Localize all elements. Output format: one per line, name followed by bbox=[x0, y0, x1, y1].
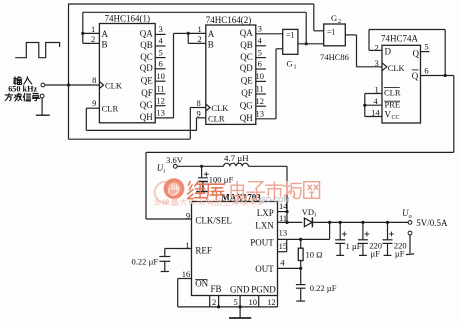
svg-text:16: 16 bbox=[182, 269, 191, 279]
svg-text:10 Ω: 10 Ω bbox=[306, 250, 323, 260]
svg-text:4: 4 bbox=[258, 36, 263, 46]
svg-text:8: 8 bbox=[92, 75, 96, 85]
svg-text:5: 5 bbox=[158, 47, 162, 57]
svg-text:3.6V: 3.6V bbox=[166, 155, 184, 165]
svg-text:=1: =1 bbox=[327, 28, 336, 37]
svg-text:QG: QG bbox=[240, 100, 253, 110]
svg-text:Q: Q bbox=[412, 71, 419, 81]
svg-text:13: 13 bbox=[156, 108, 165, 118]
svg-text:15: 15 bbox=[279, 241, 288, 251]
svg-text:µF: µF bbox=[370, 248, 380, 258]
svg-text:CLK: CLK bbox=[211, 103, 229, 113]
svg-text:8: 8 bbox=[197, 98, 201, 108]
svg-text:QC: QC bbox=[140, 52, 153, 62]
svg-text:11: 11 bbox=[157, 84, 165, 94]
svg-text:0.22 µF: 0.22 µF bbox=[132, 257, 159, 267]
svg-text:QH: QH bbox=[240, 113, 253, 123]
svg-text:QB: QB bbox=[140, 40, 153, 50]
svg-text:GND: GND bbox=[230, 285, 250, 295]
svg-text:4: 4 bbox=[158, 36, 163, 46]
svg-text:6: 6 bbox=[258, 59, 262, 69]
svg-text:13: 13 bbox=[255, 109, 264, 119]
svg-text:4: 4 bbox=[280, 257, 285, 267]
svg-text:74HC164(1): 74HC164(1) bbox=[105, 14, 151, 24]
svg-text:QD: QD bbox=[240, 63, 253, 73]
svg-text:POUT: POUT bbox=[250, 238, 274, 248]
svg-text:OUT: OUT bbox=[255, 264, 274, 274]
svg-text:QB: QB bbox=[240, 40, 253, 50]
svg-text:2: 2 bbox=[91, 34, 95, 44]
svg-text:QA: QA bbox=[140, 29, 153, 39]
svg-text:6: 6 bbox=[424, 65, 428, 75]
svg-text:A: A bbox=[102, 29, 109, 39]
svg-text:LXP: LXP bbox=[257, 208, 274, 218]
svg-text:QF: QF bbox=[241, 88, 253, 98]
svg-text:3: 3 bbox=[158, 24, 162, 34]
svg-text:74HC74A: 74HC74A bbox=[381, 34, 419, 44]
svg-text:10: 10 bbox=[249, 297, 258, 307]
svg-text:QA: QA bbox=[240, 28, 253, 38]
svg-text:IC: IC bbox=[189, 200, 196, 207]
svg-text:CLR: CLR bbox=[102, 104, 119, 114]
svg-text:5: 5 bbox=[234, 297, 238, 307]
svg-text:A: A bbox=[208, 29, 215, 39]
svg-text:FB: FB bbox=[210, 284, 221, 294]
svg-text:9: 9 bbox=[92, 98, 96, 108]
svg-text:VD: VD bbox=[302, 207, 314, 217]
svg-text:1: 1 bbox=[314, 213, 317, 219]
svg-text:=1: =1 bbox=[286, 31, 295, 40]
svg-text:B: B bbox=[102, 40, 108, 50]
svg-text:CLK/SEL: CLK/SEL bbox=[195, 215, 232, 225]
svg-text:74HC86: 74HC86 bbox=[320, 52, 349, 62]
svg-text:3: 3 bbox=[258, 24, 262, 34]
svg-text:QH: QH bbox=[140, 112, 153, 122]
svg-text:REF: REF bbox=[195, 246, 212, 256]
svg-text:2: 2 bbox=[212, 297, 216, 307]
svg-text:5V/0.5A: 5V/0.5A bbox=[416, 218, 448, 228]
svg-text:6: 6 bbox=[158, 59, 162, 69]
svg-text:12: 12 bbox=[267, 297, 276, 307]
svg-text:100 µF: 100 µF bbox=[209, 175, 234, 185]
svg-text:2: 2 bbox=[198, 34, 202, 44]
svg-text:LXN: LXN bbox=[255, 220, 274, 230]
svg-text:QF: QF bbox=[141, 88, 153, 98]
svg-text:9: 9 bbox=[197, 108, 201, 118]
svg-text:µF: µF bbox=[395, 248, 405, 258]
svg-text:14: 14 bbox=[371, 107, 380, 117]
svg-text:QD: QD bbox=[140, 63, 153, 73]
svg-text:5: 5 bbox=[424, 41, 428, 51]
svg-text:CLK: CLK bbox=[388, 63, 406, 73]
svg-text:G: G bbox=[331, 13, 337, 23]
svg-text:10: 10 bbox=[156, 71, 165, 81]
svg-text:G: G bbox=[287, 59, 293, 69]
svg-text:650 kHz: 650 kHz bbox=[8, 85, 37, 94]
svg-text:1: 1 bbox=[198, 24, 202, 34]
svg-text:1 µF: 1 µF bbox=[346, 241, 362, 251]
svg-text:3: 3 bbox=[374, 58, 378, 68]
svg-text:CC: CC bbox=[392, 115, 400, 121]
svg-text:12: 12 bbox=[156, 95, 165, 105]
svg-text:5: 5 bbox=[258, 47, 262, 57]
svg-text:4: 4 bbox=[374, 96, 379, 106]
svg-text:CLR: CLR bbox=[208, 113, 225, 123]
svg-text:SO.COM: SO.COM bbox=[261, 197, 290, 204]
svg-text:QC: QC bbox=[240, 52, 253, 62]
svg-text:o: o bbox=[409, 214, 412, 220]
svg-text:2: 2 bbox=[338, 19, 341, 25]
svg-text:V: V bbox=[385, 110, 392, 120]
svg-text:1: 1 bbox=[294, 65, 297, 71]
svg-text:D: D bbox=[385, 47, 392, 57]
svg-text:10: 10 bbox=[255, 71, 264, 81]
svg-text:0.22 µF: 0.22 µF bbox=[310, 283, 337, 293]
svg-text:CLR: CLR bbox=[384, 88, 401, 98]
svg-text:74HC164(2): 74HC164(2) bbox=[206, 15, 252, 25]
svg-text:9: 9 bbox=[186, 211, 190, 221]
svg-text:QE: QE bbox=[141, 75, 153, 85]
svg-text:11: 11 bbox=[279, 213, 287, 223]
svg-text:CLK: CLK bbox=[105, 80, 123, 90]
svg-text:1: 1 bbox=[91, 24, 95, 34]
svg-text:11: 11 bbox=[256, 84, 264, 94]
svg-text:B: B bbox=[208, 40, 214, 50]
svg-text:4.7 µH: 4.7 µH bbox=[224, 153, 249, 163]
svg-text:PGND: PGND bbox=[251, 285, 276, 295]
svg-text:Q: Q bbox=[413, 48, 420, 58]
svg-text:12: 12 bbox=[255, 96, 264, 106]
svg-text:QE: QE bbox=[241, 76, 253, 86]
svg-text:QG: QG bbox=[140, 100, 153, 110]
svg-text:13: 13 bbox=[279, 228, 288, 238]
